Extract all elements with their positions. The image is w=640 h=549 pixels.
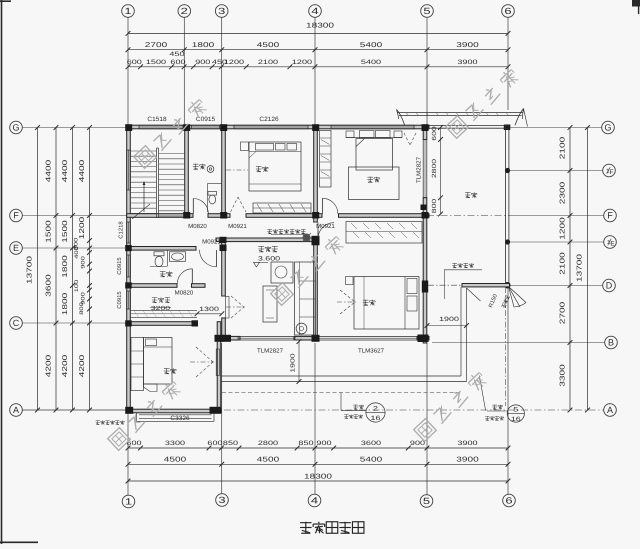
grid bubble 3 bottom (216, 494, 229, 507)
sliding door TLM3627 south (317, 335, 419, 337)
balcony parapet north (429, 124, 508, 126)
svg-text:C1518: C1518 (147, 116, 167, 123)
svg-text:1500: 1500 (146, 59, 167, 66)
watermark bottom-right (414, 419, 437, 442)
grid line column 2 (183, 18, 185, 126)
sliding door TLM2827 south (238, 335, 295, 337)
svg-text:600: 600 (207, 440, 223, 447)
exterior wall north (row G) (127, 125, 429, 129)
svg-text:2100: 2100 (258, 59, 279, 66)
svg-text:16: 16 (511, 416, 522, 423)
svg-text:C3326: C3326 (170, 415, 190, 422)
svg-text:2300: 2300 (560, 182, 567, 205)
callout balcony 2/16 (340, 393, 342, 411)
svg-text:5400: 5400 (361, 59, 382, 66)
svg-text:4: 4 (311, 496, 318, 506)
svg-text:1800: 1800 (192, 42, 215, 49)
bath1 washbasin (207, 166, 214, 173)
svg-text:1: 1 (125, 497, 132, 507)
svg-text:F: F (607, 211, 613, 221)
column col5 south of balcony door (421, 205, 427, 211)
annotation upper ridge (452, 263, 457, 265)
bedroom-sw wardrobe strip (131, 338, 144, 391)
svg-text:4200: 4200 (46, 355, 53, 378)
bedroom-sw label (164, 368, 170, 370)
svg-text:18300: 18300 (304, 474, 332, 481)
dimension column right 13700 (587, 128, 589, 411)
corridor door arc M0921 to living (200, 250, 217, 267)
stair west window (126, 150, 128, 190)
bath2 washbasin (170, 252, 186, 261)
west wall window F-E (126, 222, 128, 243)
svg-text:600: 600 (431, 125, 438, 140)
grid bubble 4 top (309, 5, 322, 18)
dimension column left mid (72, 128, 74, 411)
master nightstands (346, 131, 354, 138)
dimension column left 13700 (37, 128, 39, 411)
title second floor plan (300, 522, 312, 524)
bedroom1 bed (249, 142, 301, 191)
svg-text:400: 400 (74, 246, 80, 259)
grid bubble G right (602, 121, 615, 134)
dimension row bottom major (128, 463, 508, 465)
page border bottom-left tick (0, 541, 38, 543)
roof dashed eave line (222, 392, 461, 394)
wall row E bathroom (127, 247, 196, 251)
svg-text:M0921: M0921 (228, 223, 247, 230)
bedroom-right door arc (318, 223, 334, 239)
grid bubble 6 bottom (503, 494, 516, 507)
eave above balcony (398, 112, 524, 114)
svg-text:600: 600 (170, 59, 186, 66)
svg-text:2800: 2800 (258, 440, 279, 447)
balcony inner dimension line (440, 128, 442, 215)
bedroom-right door dashes south (340, 290, 355, 302)
watermark center (271, 283, 294, 306)
master door arc M0921 (323, 198, 338, 213)
svg-text:B: B (608, 338, 614, 348)
svg-text:3: 3 (218, 495, 225, 505)
svg-text:1800: 1800 (62, 293, 69, 316)
living room label (258, 246, 264, 248)
bedroom-right wardrobe (346, 222, 422, 244)
master window dashes (404, 133, 410, 145)
callout canopy 5/16 (479, 376, 485, 411)
grid line column 5 (426, 18, 428, 126)
grid bubble F right (604, 209, 617, 222)
svg-text:2100: 2100 (560, 252, 567, 275)
bedroom-right nightstand (346, 277, 354, 285)
balcony corner dots (505, 124, 510, 129)
svg-text:1800: 1800 (62, 255, 69, 278)
svg-text:2700: 2700 (560, 302, 567, 325)
svg-text:900: 900 (195, 59, 211, 66)
svg-text:5: 5 (513, 407, 519, 414)
grid bubble G left (10, 121, 23, 134)
corridor annotation upper stair hole (267, 229, 272, 231)
living sofa main (295, 262, 316, 335)
grid bubble 1/F right (603, 164, 616, 177)
grid bubble 5 bottom (420, 495, 433, 508)
svg-text:850: 850 (223, 440, 239, 447)
grid bubble 6 top (502, 5, 515, 18)
svg-text:900: 900 (410, 440, 426, 447)
interior wall column-4 (314, 129, 318, 214)
wall row D bathroom south (127, 284, 177, 288)
svg-text:1200: 1200 (79, 217, 86, 240)
row F centerline across balcony (427, 215, 510, 217)
bath2 label (160, 271, 166, 273)
svg-text:3900: 3900 (456, 457, 479, 464)
svg-text:4400: 4400 (46, 160, 53, 183)
stair up arrow (143, 182, 145, 212)
living plant (303, 234, 311, 242)
svg-text:F: F (13, 211, 19, 221)
roof outline southeast vertical (460, 287, 462, 376)
roof outline south horizontals (221, 375, 461, 377)
dimension column left minor (89, 128, 91, 411)
svg-text:2: 2 (373, 406, 379, 413)
svg-text:4400: 4400 (62, 160, 69, 183)
bath2 partition (167, 250, 169, 266)
interior wall column-3 living west (222, 242, 226, 297)
svg-text:TLM2827: TLM2827 (257, 348, 284, 355)
svg-text:M0921: M0921 (316, 223, 335, 230)
bedroom1 dash cross (226, 169, 248, 171)
wall row F (127, 214, 193, 218)
exterior wall column-5 east (423, 125, 427, 140)
master bed (356, 139, 393, 171)
svg-text:600: 600 (127, 59, 143, 66)
svg-text:F: F (610, 169, 614, 176)
dimension line 18300 top (128, 32, 508, 34)
grid line column 1 (127, 18, 129, 126)
grid line column 4 (314, 18, 316, 126)
svg-text:A: A (607, 405, 613, 415)
svg-text:3900: 3900 (456, 42, 479, 49)
balcony parapet south row D (462, 284, 510, 287)
dimension line 18300 bottom (128, 480, 508, 482)
interior wall column-2 stair east (185, 129, 189, 214)
svg-text:1900: 1900 (290, 352, 297, 372)
balcony parapet east (505, 125, 507, 287)
svg-text:4500: 4500 (164, 457, 187, 464)
wall row 1/E corridor (216, 238, 317, 242)
master bed duvet (349, 167, 400, 200)
svg-text:3900: 3900 (457, 59, 478, 66)
svg-text:3600: 3600 (361, 440, 382, 447)
grid line column 6 (507, 18, 509, 111)
living coffee table (263, 286, 277, 322)
grid bubble B right (605, 336, 618, 349)
svg-text:3200: 3200 (151, 305, 171, 312)
svg-text:4200: 4200 (79, 355, 86, 378)
svg-text:TLM3627: TLM3627 (358, 348, 385, 355)
svg-text:450: 450 (169, 51, 185, 58)
grid bubble 1/E right (604, 236, 617, 249)
columns row G (125, 124, 132, 131)
grid bubble 3 top (215, 5, 228, 18)
svg-text:800: 800 (431, 198, 438, 213)
grid bubble D right (603, 279, 616, 292)
svg-text:100: 100 (74, 280, 80, 293)
svg-text:M0820: M0820 (175, 289, 194, 296)
bath2 door arc M0820 (177, 269, 192, 284)
page border left edge (1, 0, 3, 544)
svg-text:3600: 3600 (46, 274, 53, 297)
svg-text:18300: 18300 (306, 23, 334, 30)
laundry counter window band (131, 309, 197, 311)
svg-text:13700: 13700 (577, 254, 584, 282)
svg-text:3: 3 (218, 6, 225, 16)
grid bubble E left (10, 242, 23, 255)
ac board annotation (96, 420, 100, 422)
svg-text:TLM2827: TLM2827 (416, 156, 423, 183)
svg-text:4200: 4200 (62, 355, 69, 378)
svg-text:4: 4 (311, 6, 318, 16)
svg-text:2700: 2700 (145, 42, 168, 49)
svg-text:1200: 1200 (224, 59, 245, 66)
stairwell treads (131, 150, 156, 152)
svg-text:M0820: M0820 (188, 223, 207, 230)
dimension column right minor (569, 128, 571, 411)
svg-text:3.600: 3.600 (258, 255, 281, 262)
living chaise (271, 262, 293, 283)
bedroom1 nightstand (241, 142, 249, 151)
stair break line (132, 204, 150, 219)
svg-text:1500: 1500 (46, 220, 53, 243)
svg-text:850: 850 (298, 440, 314, 447)
svg-text:6: 6 (505, 496, 512, 506)
svg-text:5400: 5400 (360, 42, 383, 49)
bedroom-sw nightstand (144, 384, 158, 392)
svg-text:3300: 3300 (560, 364, 567, 387)
svg-text:1: 1 (124, 6, 131, 16)
svg-text:3900: 3900 (457, 440, 478, 447)
svg-text:C1218: C1218 (119, 221, 125, 238)
grid bubble 5 top (421, 5, 434, 18)
row D centerline right extension (505, 287, 507, 406)
watermark top-left (134, 146, 157, 169)
svg-text:1900: 1900 (439, 316, 460, 323)
page border top-right mark (632, 0, 640, 7)
south wall living room (row B side) (222, 336, 241, 340)
svg-text:3300: 3300 (165, 440, 186, 447)
svg-text:4500: 4500 (257, 42, 280, 49)
svg-text:D: D (606, 281, 613, 291)
svg-text:800: 800 (79, 302, 85, 315)
bedroom-right label (363, 299, 369, 301)
grid bubble C left (10, 317, 23, 330)
row D centerline dashes (428, 284, 462, 286)
grid bubble 1 top (122, 5, 135, 18)
columns row E/D/C west (125, 245, 132, 251)
svg-text:C: C (13, 318, 20, 328)
svg-text:16: 16 (371, 415, 382, 422)
columns bedroom-left south (125, 407, 133, 414)
bedroom-sw door dashes (196, 347, 213, 362)
wall row C bedroom north (127, 322, 197, 326)
columns south wall (222, 335, 232, 342)
svg-text:1200: 1200 (292, 59, 313, 66)
svg-text:4500: 4500 (257, 457, 280, 464)
svg-text:5: 5 (423, 496, 430, 506)
watermark bottom-left (108, 428, 131, 451)
exterior wall west (127, 125, 131, 413)
balcony corner dot southeast (504, 282, 510, 288)
svg-text:G: G (604, 123, 611, 133)
svg-text:A: A (13, 405, 19, 415)
svg-text:5: 5 (423, 6, 430, 16)
window C2126 in north wall (234, 124, 308, 126)
svg-text:1200: 1200 (560, 217, 567, 240)
svg-text:C0915: C0915 (117, 291, 123, 308)
svg-text:2: 2 (181, 6, 188, 16)
svg-text:13700: 13700 (27, 256, 34, 284)
window C1518 in north wall (139, 124, 183, 126)
bedroom southwest east wall (217, 322, 221, 413)
svg-text:M0921: M0921 (202, 239, 221, 246)
svg-text:4400: 4400 (79, 160, 86, 183)
svg-text:900: 900 (81, 256, 87, 269)
svg-text:1300: 1300 (199, 306, 220, 313)
column col5 at row D (422, 281, 428, 293)
bath2 toilet (154, 252, 164, 256)
bedroom-sw door leaf east (216, 349, 219, 376)
stair railing center (156, 148, 158, 218)
R150 eave corner fan (509, 287, 527, 303)
svg-text:1500: 1500 (62, 220, 69, 243)
grid bubble 2 top (178, 5, 191, 18)
dimension row bottom minor (128, 447, 508, 449)
bath1 room label (193, 163, 199, 165)
bath1 partition (208, 183, 222, 185)
grid bubble A right (604, 404, 617, 417)
eave corner small label (501, 295, 510, 309)
grid bubble 4 bottom (308, 494, 321, 507)
svg-text:2100: 2100 (560, 137, 567, 160)
grid bubble 1 bottom (122, 495, 135, 508)
bedroom-right bed (354, 277, 419, 330)
svg-text:E: E (610, 240, 615, 247)
bedroom1 door swing dashes (231, 197, 239, 212)
balcony label (465, 192, 470, 194)
balcony door TLM2827 (422, 140, 424, 198)
row A centerline (22, 409, 128, 411)
laundry label (152, 297, 157, 299)
master bedroom label (367, 176, 373, 178)
svg-text:G: G (12, 123, 19, 133)
window north wall master bedroom (331, 124, 414, 126)
columns row C area (192, 320, 199, 326)
living west opening (226, 297, 229, 319)
grid line column 3 (221, 18, 223, 126)
window C0915 in north wall (192, 124, 220, 126)
svg-text:900: 900 (316, 440, 332, 447)
dimension row top minor (128, 66, 508, 68)
svg-text:5400: 5400 (360, 457, 383, 464)
svg-text:E: E (13, 243, 19, 253)
dimension column left major (55, 128, 57, 411)
svg-text:C2126: C2126 (259, 116, 279, 123)
svg-text:2800: 2800 (431, 158, 438, 178)
svg-text:C0915: C0915 (117, 257, 123, 274)
bay window C3326 (136, 413, 138, 421)
dimension row top major (128, 49, 508, 51)
interior wall column-3 upper (222, 129, 226, 214)
grid bubble F left (10, 209, 23, 222)
bath1 toilet (208, 192, 217, 196)
watermark top-right (446, 116, 469, 139)
svg-text:6: 6 (504, 6, 511, 16)
bedroom1 room label (256, 166, 262, 168)
bath1 door arc M0820 (193, 199, 208, 214)
exterior wall south bedroom-left (127, 409, 221, 413)
grid bubble A left (10, 404, 23, 417)
bedroom-sw bed (144, 338, 173, 385)
master wardrobe west strip (320, 131, 332, 188)
bedroom1 closet along F wall (253, 203, 311, 213)
columns row F (183, 212, 190, 219)
living round table (296, 323, 307, 334)
